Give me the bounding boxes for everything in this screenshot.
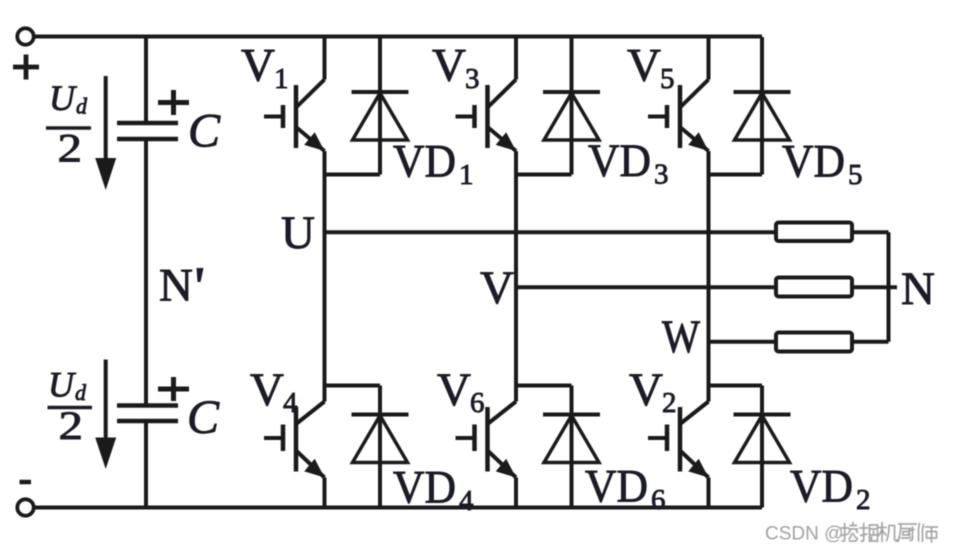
- label VD3: [588, 135, 669, 191]
- label VD1: [393, 136, 474, 192]
- diode VD3: [543, 37, 600, 175]
- label V5: [627, 40, 675, 96]
- transistor V5 (IGBT, top leg 3): [648, 37, 709, 175]
- wire bottom DC bus: [34, 506, 762, 510]
- capacitor C (lower): [117, 406, 178, 422]
- watermark glyph wa (挖): [841, 523, 858, 542]
- wire leg2 bottom pair top joint: [516, 384, 572, 388]
- wire leg3 top pair bottom joint: [709, 173, 763, 177]
- watermark glyph chu (厨): [898, 524, 917, 542]
- transistor V4 (IGBT, bottom leg 1): [264, 386, 325, 508]
- label V3: [432, 40, 480, 96]
- arrow Ud/2 upper: [95, 76, 116, 190]
- wire leg1 top pair bottom joint: [325, 173, 381, 177]
- transistor V2 (IGBT, bottom leg 3): [648, 386, 709, 508]
- label V2: [629, 364, 677, 419]
- wire leg1 bottom pair top joint: [325, 384, 381, 388]
- diode VD2: [734, 386, 791, 508]
- wire leg3 phase vertical: [707, 175, 711, 386]
- plus polarity mark lower capacitor: [158, 377, 189, 401]
- svg-text:CSDN @: CSDN @: [765, 524, 843, 545]
- wire top DC bus: [34, 35, 762, 39]
- diode VD4: [352, 386, 409, 508]
- load resistor phase V: [776, 278, 852, 297]
- diode VD1: [352, 37, 409, 175]
- diode VD6: [543, 386, 600, 508]
- label Ud/2 upper: [46, 78, 91, 171]
- label Ud/2 lower: [48, 365, 93, 449]
- transistor V6 (IGBT, bottom leg 2): [456, 386, 517, 508]
- wire leg3 bottom pair top joint: [709, 384, 763, 388]
- plus polarity mark upper capacitor: [158, 90, 189, 115]
- label V1: [241, 40, 289, 96]
- wire leg1 phase vertical: [323, 175, 327, 386]
- wire leg2 top pair bottom joint: [516, 173, 572, 177]
- load resistor phase W: [776, 333, 852, 352]
- wire phase V: [516, 285, 897, 289]
- label V6: [437, 364, 485, 419]
- watermark glyph ji (机): [878, 523, 898, 542]
- load resistor phase U: [776, 223, 852, 242]
- diode VD5: [734, 37, 791, 175]
- label VD4: [393, 462, 474, 518]
- label VD6: [585, 461, 666, 517]
- transistor V3 (IGBT, top leg 2): [456, 37, 517, 175]
- wire leg2 phase vertical: [514, 175, 518, 386]
- label V4: [250, 364, 298, 419]
- wire DC-link vertical: [144, 37, 148, 508]
- wire phase U: [325, 230, 889, 234]
- watermark glyph jue (掘): [860, 524, 878, 542]
- label VD5: [782, 136, 863, 192]
- transistor V1 (IGBT, top leg 1): [264, 37, 325, 175]
- arrow Ud/2 lower: [95, 360, 116, 470]
- terminal - (negative DC terminal): [17, 499, 33, 515]
- label VD2: [790, 461, 871, 517]
- terminal + (positive DC terminal): [17, 28, 33, 44]
- capacitor C (upper): [117, 123, 178, 139]
- watermark glyph shi (师): [919, 524, 938, 543]
- wire neutral vertical: [887, 232, 891, 341]
- minus sign at - terminal: [20, 480, 32, 485]
- plus sign at + terminal: [13, 55, 39, 80]
- wire phase W: [709, 340, 889, 344]
